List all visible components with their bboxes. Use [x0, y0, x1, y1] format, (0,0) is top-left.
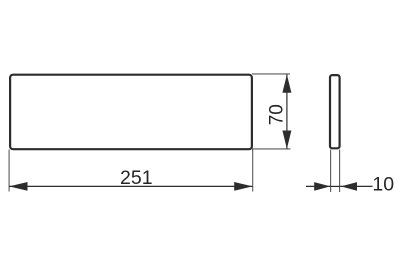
svg-text:70: 70 — [266, 104, 287, 125]
svg-text:10: 10 — [372, 174, 394, 196]
svg-text:251: 251 — [120, 167, 153, 189]
